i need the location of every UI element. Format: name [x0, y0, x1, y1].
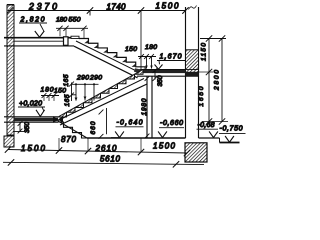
extension at 90 — [89, 11, 91, 16]
svg-text:1500: 1500 — [153, 141, 176, 150]
height dim 1980 — [145, 76, 150, 81]
landing dim 350 right — [154, 70, 156, 80]
svg-text:180: 180 — [41, 87, 54, 94]
svg-text:1650: 1650 — [198, 86, 205, 106]
left wall footing — [4, 136, 14, 147]
landing slab bottom — [137, 75, 199, 77]
landing junction blob — [134, 68, 143, 74]
svg-text:-0,640: -0,640 — [117, 120, 143, 127]
svg-text:1150: 1150 — [201, 43, 208, 61]
svg-text:1740: 1740 — [107, 3, 127, 12]
svg-text:+0,020: +0,020 — [19, 100, 42, 107]
svg-text:180: 180 — [56, 16, 67, 23]
foundation pier — [185, 143, 207, 162]
left wall top cap — [7, 4, 14, 6]
landing level extension — [199, 71, 214, 73]
svg-text:2,820: 2,820 — [20, 16, 45, 23]
lower flight cut steps — [58, 70, 143, 118]
ground floor slab top — [4, 116, 58, 118]
upper flight stringer top — [76, 41, 141, 73]
svg-text:-0,660: -0,660 — [160, 120, 183, 127]
top dim break symbol — [189, 6, 197, 10]
right dims extension top — [200, 38, 226, 40]
entrance steps — [58, 122, 89, 138]
landing strip top outline — [140, 69, 186, 71]
vestibule floor -0.640/-0.660 — [87, 137, 186, 139]
lower flight stringer top — [58, 79, 144, 121]
svg-text:1500: 1500 — [21, 144, 46, 153]
landing support wall line B — [151, 76, 153, 138]
right dim line 1150/1650 — [208, 39, 210, 122]
entrance steps nosing line — [58, 121, 87, 138]
dim 180 550 — [56, 27, 88, 29]
upper flight steps — [79, 39, 145, 72]
extension landing edge — [140, 11, 142, 70]
ground floor screed strip — [14, 118, 58, 121]
svg-text:1500: 1500 — [156, 2, 180, 11]
small dims 180 150 left — [41, 95, 59, 97]
porch line -0,68 — [199, 137, 220, 139]
upper floor slab bottom — [4, 45, 74, 47]
upper flight soffit — [74, 46, 138, 78]
svg-text:150: 150 — [125, 46, 137, 53]
height dim 660 — [106, 108, 108, 134]
svg-text:150: 150 — [54, 88, 66, 95]
svg-text:550: 550 — [69, 16, 81, 23]
landing slab cut in wall — [186, 72, 199, 76]
first step block — [71, 36, 79, 38]
right wall cut hatch block — [186, 50, 199, 76]
svg-text:165: 165 — [64, 94, 71, 106]
svg-text:290: 290 — [76, 74, 89, 81]
svg-text:-0,750: -0,750 — [220, 126, 243, 133]
svg-text:870: 870 — [61, 135, 77, 144]
svg-text:2610: 2610 — [95, 144, 118, 153]
riser dim 165 upper — [71, 83, 73, 102]
svg-text:660: 660 — [90, 121, 97, 134]
bottom dim row 1 — [8, 150, 187, 154]
slab dim 350 left — [19, 122, 21, 132]
lower flight soffit — [60, 84, 147, 125]
svg-text:1980: 1980 — [141, 98, 148, 115]
right dim line 2800 — [221, 39, 223, 122]
landing top inside wall — [186, 69, 199, 71]
floor level extension — [202, 121, 228, 123]
right wall right face — [198, 7, 200, 138]
svg-text:165: 165 — [63, 74, 70, 86]
upper floor finish line — [14, 40, 63, 42]
tread dims 290 290 — [72, 83, 99, 85]
svg-text:180: 180 — [145, 44, 157, 51]
svg-text:1,670: 1,670 — [160, 54, 182, 61]
grade line -0.750 — [220, 142, 240, 144]
upper floor slab top — [4, 37, 72, 39]
svg-text:-0,68: -0,68 — [198, 122, 215, 129]
svg-text:350: 350 — [24, 122, 31, 133]
railing post — [64, 37, 69, 46]
dims 150 180 above landing — [138, 56, 156, 58]
landing screed strip — [140, 70, 186, 74]
bottom dim row 2 (5610) — [3, 162, 204, 164]
svg-text:350: 350 — [157, 75, 164, 86]
left wall — [7, 5, 14, 135]
right wall left face — [185, 7, 187, 138]
ground floor slab bottom — [4, 121, 58, 123]
upper flight nosing shadow wedges — [84, 40, 135, 67]
porch step edge — [219, 138, 221, 143]
top dimension line — [8, 10, 186, 12]
svg-text:5610: 5610 — [100, 155, 121, 164]
landing support wall line A — [146, 76, 148, 138]
svg-text:290: 290 — [89, 74, 102, 81]
section bowtie mark — [53, 116, 63, 123]
